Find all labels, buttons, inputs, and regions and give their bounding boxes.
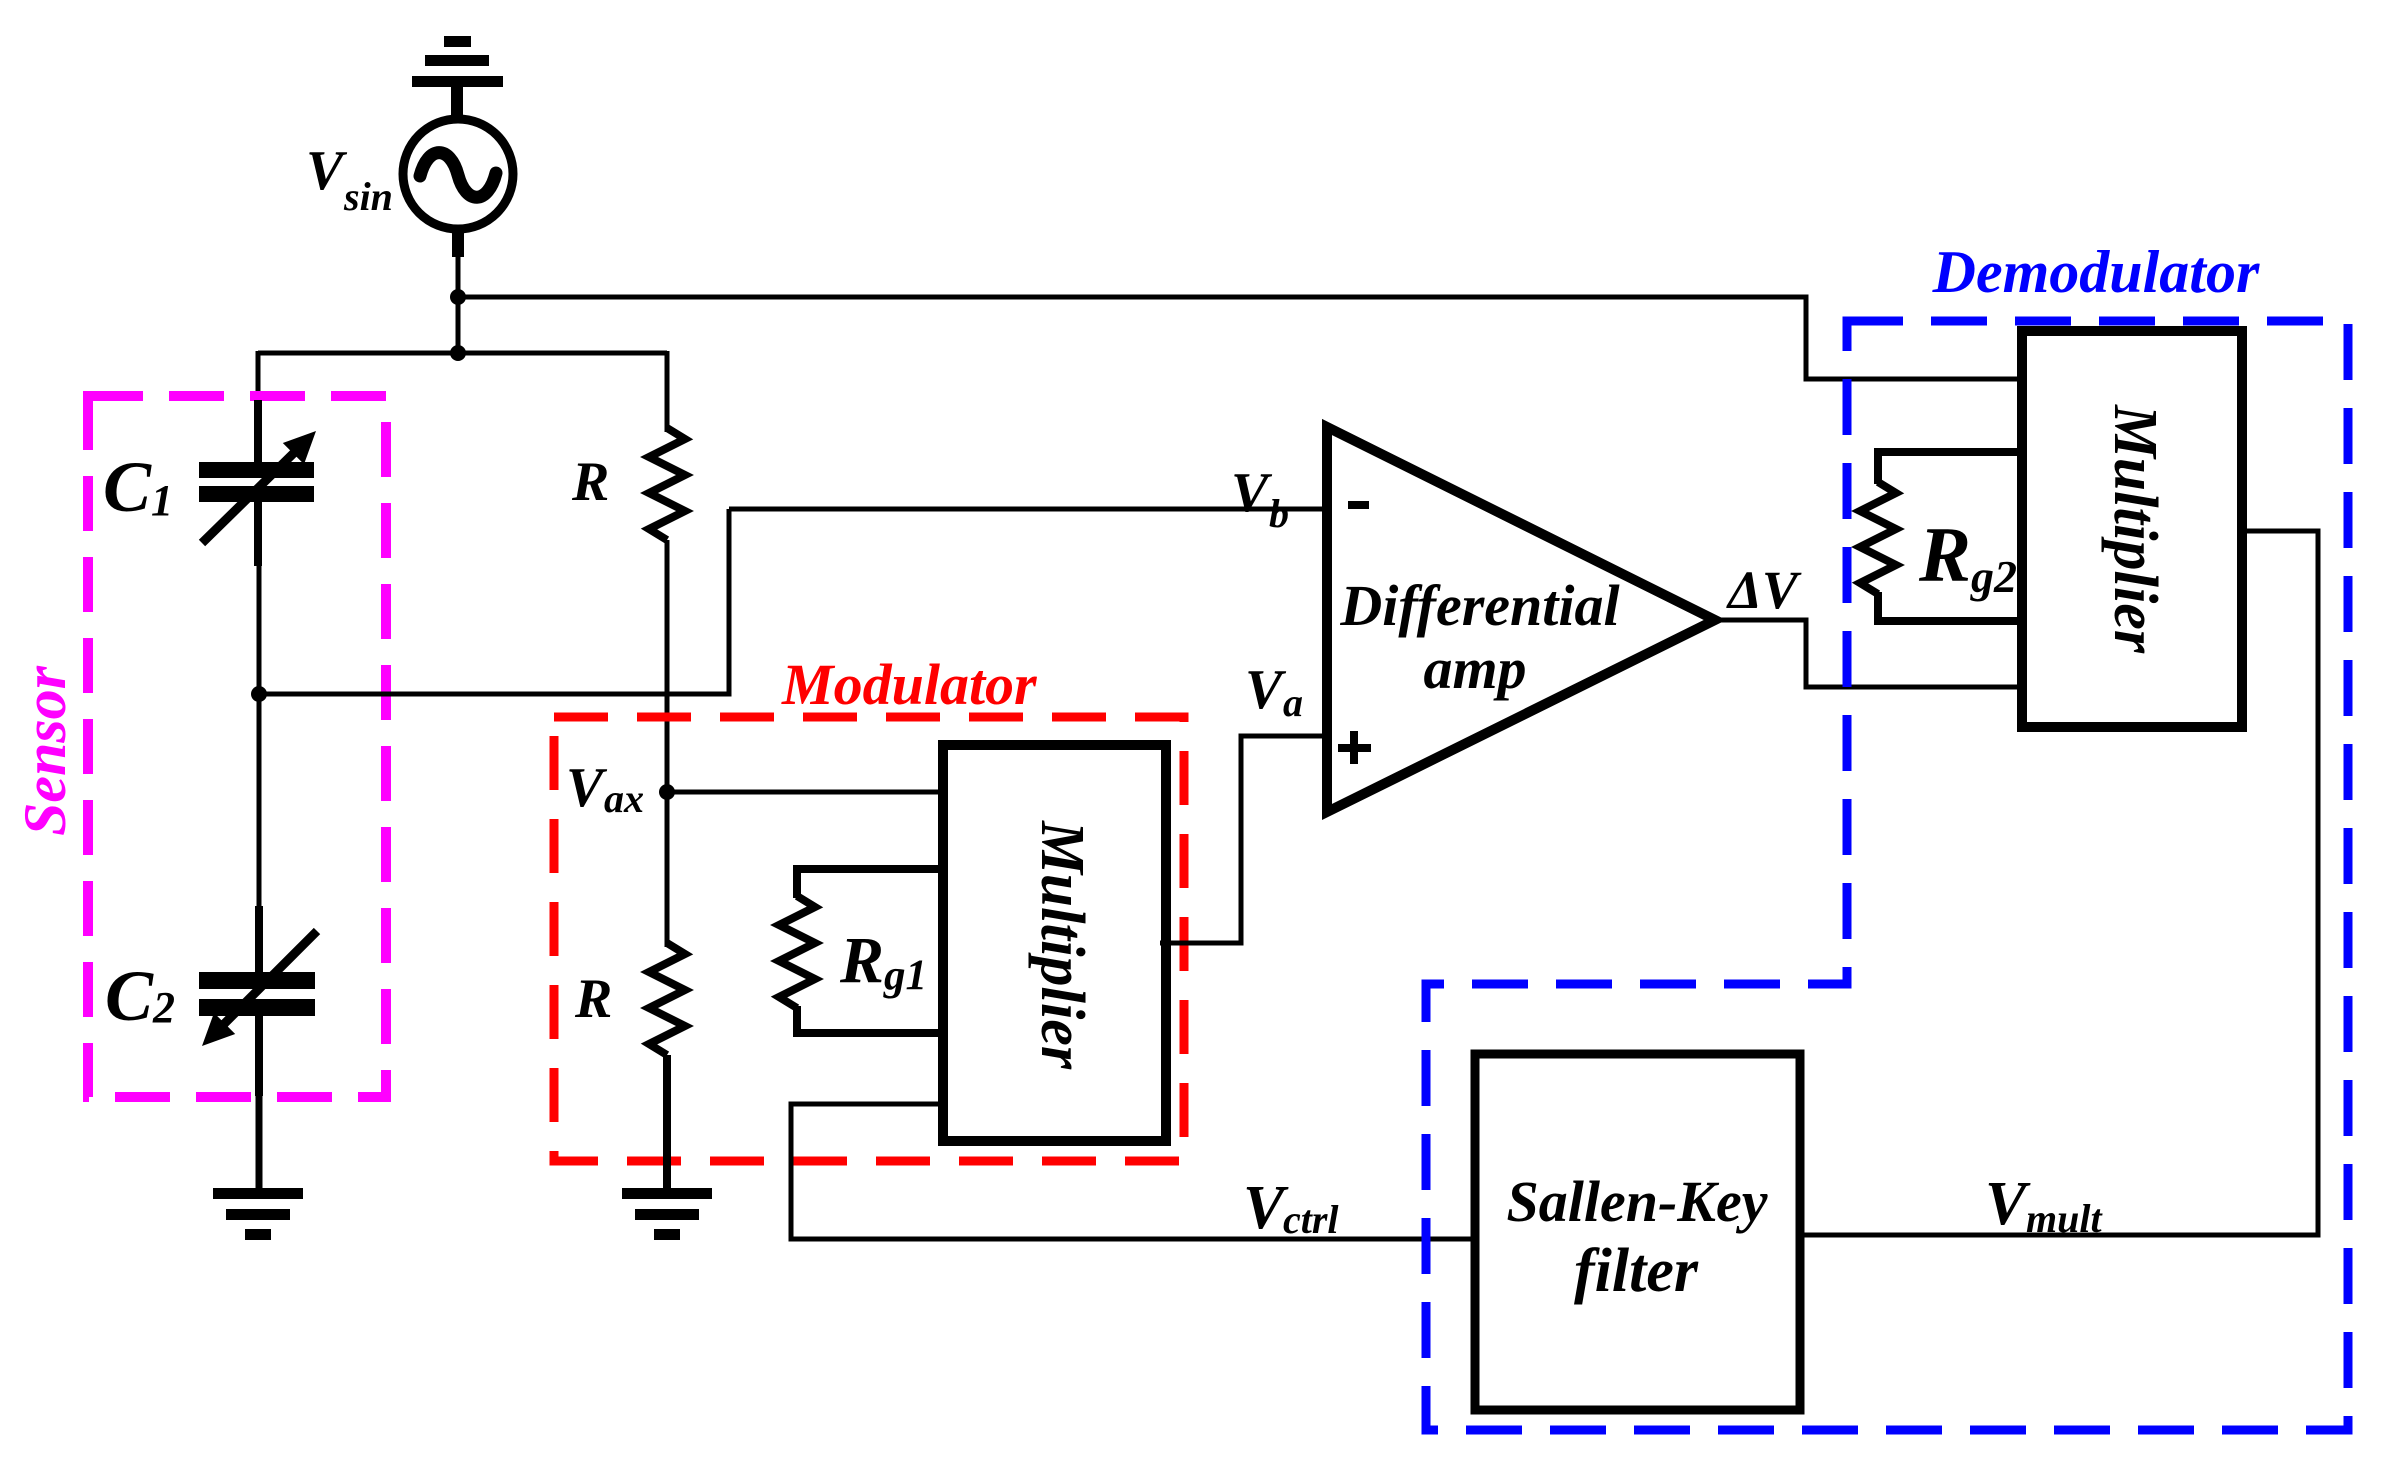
resistor R (bottom) (649, 943, 685, 1055)
svg-text:R: R (574, 968, 612, 1030)
multiplier U1 box (modulator) (943, 745, 1166, 1141)
label C1 (103, 447, 173, 527)
svg-text:Modulator: Modulator (781, 652, 1037, 717)
ground (inverted, above Vsin source) (412, 36, 503, 121)
svg-text:mult: mult (2026, 1196, 2103, 1241)
svg-text:a: a (1283, 680, 1303, 725)
Sensor dashed box (88, 396, 386, 1097)
svg-text:ΔV: ΔV (1726, 560, 1802, 620)
wire U3 output down to Vmult run (1800, 531, 2318, 1235)
label C2 (105, 956, 175, 1036)
wire diff amp output to demod multiplier input (1715, 620, 2022, 687)
svg-text:2: 2 (152, 983, 175, 1032)
svg-text:ax: ax (604, 776, 644, 821)
capacitor C2 (variable) (199, 906, 317, 1096)
node C (sensor mid junction) (251, 686, 267, 702)
op-amp U2: Differential amp triangle (1327, 427, 1715, 812)
wire Vax down to R bottom (665, 792, 670, 947)
wire top rail down to R (665, 351, 670, 432)
AC source Vsin (403, 119, 513, 229)
svg-text:Multiplier: Multiplier (2101, 404, 2169, 654)
label Vctrl (1243, 1174, 1339, 1242)
label Vmult (1985, 1170, 2103, 1241)
svg-text:filter: filter (1574, 1237, 1699, 1305)
wire U1 lower pin to Vctrl run (791, 1104, 1475, 1239)
label Rg2 (1918, 511, 2017, 602)
svg-text:V: V (1985, 1170, 2031, 1238)
ground (sensor) (213, 1188, 303, 1240)
svg-text:Differential: Differential (1339, 573, 1620, 638)
wire R bottom to ground (663, 1055, 671, 1190)
multiplier U3 box (demodulator) (2022, 331, 2242, 727)
svg-text:Demodulator: Demodulator (1932, 239, 2260, 305)
wire C2 to ground (256, 1090, 263, 1190)
node Vax (659, 784, 675, 800)
svg-text:Sallen-Key: Sallen-Key (1507, 1169, 1768, 1234)
svg-text:Sensor: Sensor (12, 665, 78, 836)
svg-text:R: R (839, 924, 884, 997)
wire U1 output to diff amp plus input (1160, 736, 1327, 943)
svg-text:sin: sin (343, 174, 393, 219)
wire long run to demodulator top pin (458, 297, 2022, 379)
svg-text:g1: g1 (883, 952, 927, 999)
wire Vsin source down to node (452, 229, 464, 257)
wire node C down to C2 (257, 694, 262, 910)
resistor Rg1 with connecting bracket (779, 869, 943, 1033)
svg-text:Multiplier: Multiplier (1028, 820, 1096, 1070)
wire C1 to node C (257, 560, 262, 694)
wire R to Vax node (665, 540, 670, 792)
label Vb (1231, 462, 1289, 536)
svg-text:1: 1 (151, 476, 173, 525)
resistor Rg2 with connecting bracket (1860, 452, 2022, 621)
svg-text:R: R (571, 451, 609, 513)
svg-text:g2: g2 (1970, 551, 2017, 602)
label Rg1 (839, 924, 927, 999)
Sallen-Key filter box (1475, 1054, 1800, 1410)
Demodulator dashed outline (1426, 321, 2348, 1430)
wire node C to Vb corner (259, 509, 729, 694)
svg-text:V: V (1245, 659, 1287, 721)
Modulator dashed box (554, 717, 1184, 1161)
label Vsin (306, 140, 393, 219)
svg-text:V: V (1231, 462, 1273, 524)
wire Vb to diff amp minus input (729, 507, 1327, 512)
label Vax (566, 757, 644, 821)
svg-text:C: C (105, 956, 154, 1036)
svg-text:C: C (103, 447, 152, 527)
svg-text:b: b (1269, 491, 1289, 536)
svg-text:V: V (566, 757, 608, 819)
label Sallen-Key filter (1507, 1169, 1768, 1305)
node B (junction to bridge top) (450, 345, 466, 361)
wire bridge top rail (258, 351, 667, 356)
ground (modulator divider) (622, 1188, 712, 1240)
resistor R (top) (649, 428, 685, 540)
svg-text:R: R (1918, 511, 1971, 598)
svg-text:ctrl: ctrl (1283, 1197, 1339, 1242)
svg-text:amp: amp (1423, 636, 1526, 701)
svg-text:V: V (306, 140, 348, 202)
node A (junction to demodulator line) (450, 289, 466, 305)
label Va (1245, 659, 1303, 725)
wire down to C1 (256, 351, 261, 404)
capacitor C1 (variable) (199, 400, 316, 566)
wire Vax to multiplier U1 pin (667, 790, 943, 795)
